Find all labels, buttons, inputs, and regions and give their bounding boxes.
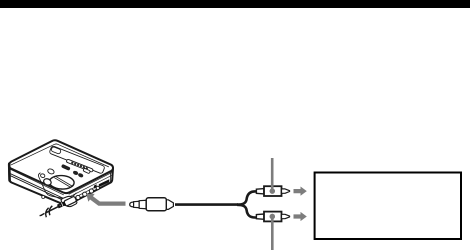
jack circle 1 — [76, 195, 80, 199]
header bar — [0, 0, 470, 8]
left corner edge emphasis — [8, 165, 11, 181]
disc window ellipse — [49, 175, 74, 190]
cable stub end — [40, 213, 45, 215]
jack circle 4 — [96, 186, 99, 189]
cable split lower branch — [237, 205, 258, 218]
mini plug tip — [130, 202, 134, 207]
stereo system box — [315, 173, 461, 240]
gray indicator line top — [271, 158, 274, 191]
RCA plug bottom: tip — [282, 214, 290, 218]
gray arrow at device jack — [86, 194, 125, 206]
RCA plug bottom: barrel — [256, 214, 264, 219]
RCA plug top: body — [264, 186, 282, 196]
small button on window edge — [43, 178, 53, 187]
gray arrow to box bottom — [294, 212, 307, 221]
lid tab — [51, 146, 62, 154]
side strap hole — [42, 196, 45, 199]
top face inner bevel line — [11, 144, 108, 167]
cable main run — [175, 203, 238, 206]
MiniDisc recorder (device) — [9, 140, 113, 205]
display slot — [66, 159, 93, 172]
lid recessed panel — [49, 146, 105, 174]
window inner rim arc — [67, 185, 74, 189]
right face black recess strip — [99, 179, 110, 187]
plug cable — [46, 206, 59, 213]
RCA dot top redraw — [270, 188, 275, 193]
right face black recess left mark — [94, 184, 97, 188]
left side face double seam — [9, 173, 64, 200]
mini plug rings — [134, 201, 140, 207]
RCA plug top: center dot — [270, 188, 275, 193]
gray indicator line bottom — [271, 217, 274, 250]
device top face — [9, 140, 113, 193]
RCA dot bottom redraw — [270, 214, 275, 219]
small ring button 1 — [40, 173, 46, 178]
RCA plug top: barrel — [256, 189, 264, 194]
cable split upper branch — [237, 191, 258, 204]
right corner post lines — [110, 172, 112, 182]
button capsule C5 (white) — [83, 168, 91, 174]
right side face seam 1 — [69, 172, 112, 194]
RCA plug bottom: center dot — [270, 214, 275, 219]
window reflection lines — [54, 177, 72, 188]
RCA plug bottom: body — [264, 212, 282, 222]
dial platform — [38, 173, 76, 199]
jack circle 3 — [89, 189, 93, 193]
inserted plug body — [64, 196, 77, 206]
volume double oval C4 (dark) — [72, 170, 84, 178]
device body bottom outline — [9, 164, 113, 206]
left side face seam 1 — [9, 169, 63, 195]
small ring button 2 — [47, 168, 55, 175]
cable break squiggle — [46, 206, 53, 217]
inserted plug boss — [61, 196, 77, 206]
jack circle 2 — [83, 192, 87, 196]
right side face seam 2 — [70, 175, 113, 197]
mini plug body — [146, 198, 166, 211]
gray arrow to box top — [294, 187, 307, 196]
plug shaft rings — [58, 203, 65, 206]
right side face seam 3 — [72, 187, 95, 199]
button capsule C2 (dark) — [61, 164, 70, 170]
RCA plug top: tip — [282, 189, 290, 193]
mini plug taper — [166, 200, 173, 210]
